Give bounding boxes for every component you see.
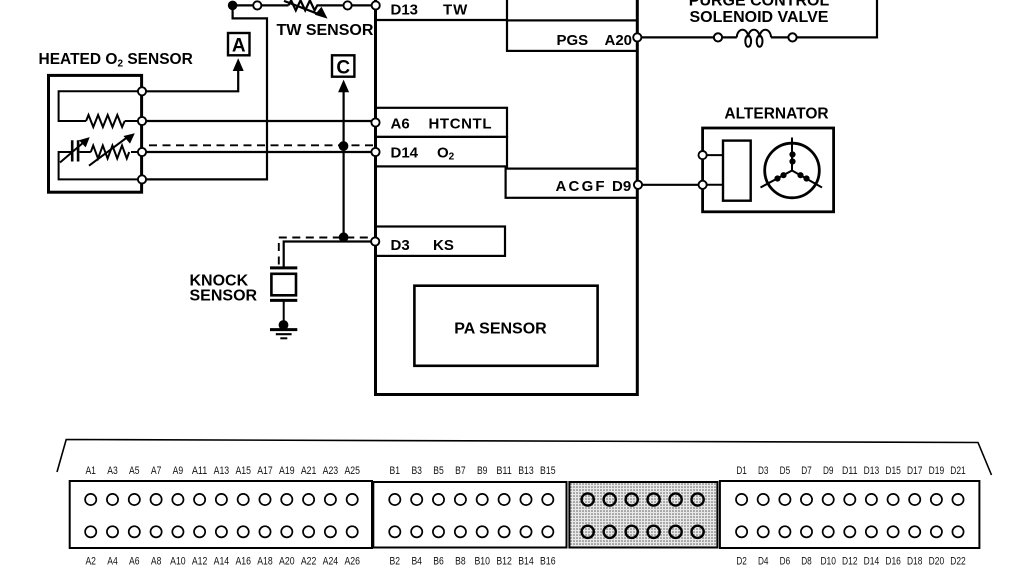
svg-text:B5: B5 [433, 465, 444, 477]
svg-text:TW SENSOR: TW SENSOR [277, 22, 374, 39]
svg-text:ACGFD9: ACGFD9 [556, 178, 632, 195]
svg-text:SENSOR: SENSOR [190, 288, 258, 305]
svg-text:D4: D4 [758, 556, 769, 567]
svg-text:D3: D3 [758, 465, 769, 477]
svg-text:B10: B10 [474, 556, 490, 567]
svg-text:A13: A13 [214, 465, 230, 477]
svg-text:A23: A23 [323, 465, 339, 477]
svg-text:B13: B13 [518, 465, 534, 477]
svg-text:A11: A11 [192, 465, 208, 477]
svg-text:D19: D19 [929, 465, 945, 477]
svg-text:D18: D18 [907, 556, 923, 567]
svg-text:D16: D16 [885, 556, 901, 567]
svg-text:D9: D9 [823, 465, 834, 477]
svg-text:D8: D8 [801, 556, 812, 567]
svg-text:B3: B3 [411, 465, 422, 477]
svg-text:A4: A4 [107, 556, 118, 567]
svg-text:SOLENOID VALVE: SOLENOID VALVE [690, 9, 829, 26]
svg-text:D11: D11 [842, 465, 858, 477]
svg-text:B1: B1 [390, 465, 401, 477]
svg-text:A22: A22 [301, 556, 317, 567]
svg-text:D17: D17 [907, 465, 923, 477]
svg-text:A17: A17 [257, 465, 273, 477]
svg-text:D20: D20 [929, 556, 945, 567]
svg-text:A10: A10 [170, 556, 186, 567]
svg-text:B7: B7 [455, 465, 466, 477]
svg-text:A: A [232, 36, 246, 57]
svg-text:D22: D22 [950, 556, 966, 567]
svg-text:D14: D14 [864, 556, 880, 567]
svg-text:B12: B12 [496, 556, 512, 567]
svg-text:D10: D10 [820, 556, 836, 567]
svg-text:A25: A25 [344, 465, 360, 477]
svg-text:D21: D21 [950, 465, 966, 477]
svg-text:A7: A7 [151, 465, 162, 477]
svg-text:D6: D6 [780, 556, 791, 567]
svg-text:A1: A1 [85, 465, 96, 477]
svg-text:D7: D7 [801, 465, 812, 477]
svg-text:A20: A20 [279, 556, 295, 567]
svg-text:A19: A19 [279, 465, 295, 477]
svg-text:D5: D5 [780, 465, 791, 477]
svg-text:B8: B8 [455, 556, 466, 567]
svg-text:A5: A5 [129, 465, 140, 477]
svg-text:A9: A9 [173, 465, 184, 477]
svg-text:A2: A2 [85, 556, 96, 567]
svg-text:B16: B16 [540, 556, 556, 567]
svg-text:B15: B15 [540, 465, 556, 477]
svg-text:A6: A6 [129, 556, 140, 567]
svg-text:C: C [336, 58, 350, 79]
svg-text:D12: D12 [842, 556, 858, 567]
svg-text:PA SENSOR: PA SENSOR [454, 321, 547, 338]
svg-text:B14: B14 [518, 556, 534, 567]
svg-text:A15: A15 [235, 465, 251, 477]
svg-text:HEATED O2 SENSOR: HEATED O2 SENSOR [39, 51, 193, 70]
svg-text:A16: A16 [235, 556, 251, 567]
svg-text:D2: D2 [736, 556, 747, 567]
svg-text:A3: A3 [107, 465, 118, 477]
svg-text:B6: B6 [433, 556, 444, 567]
svg-text:B2: B2 [390, 556, 401, 567]
svg-text:A24: A24 [323, 556, 339, 567]
svg-text:A18: A18 [257, 556, 273, 567]
svg-text:D15: D15 [885, 465, 901, 477]
svg-text:A8: A8 [151, 556, 162, 567]
svg-text:A26: A26 [344, 556, 360, 567]
svg-text:D13: D13 [864, 465, 880, 477]
svg-text:A12: A12 [192, 556, 208, 567]
svg-text:D1: D1 [736, 465, 747, 477]
svg-text:ALTERNATOR: ALTERNATOR [724, 106, 828, 123]
svg-text:B11: B11 [496, 465, 512, 477]
svg-text:B4: B4 [411, 556, 422, 567]
svg-text:A6HTCNTL: A6HTCNTL [391, 116, 493, 133]
svg-text:B9: B9 [477, 465, 488, 477]
svg-text:A14: A14 [214, 556, 230, 567]
svg-text:A21: A21 [301, 465, 317, 477]
